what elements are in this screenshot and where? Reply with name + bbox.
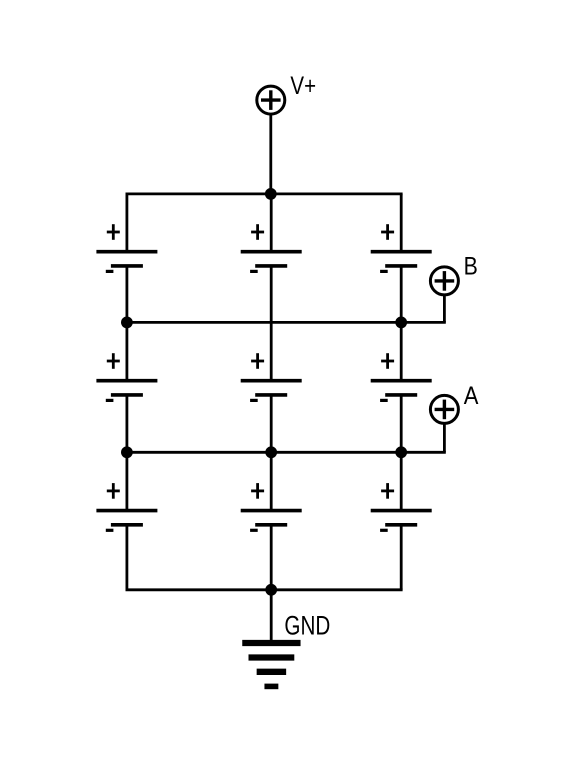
wire V+ to top bus	[269, 115, 272, 194]
junction node B right	[395, 317, 407, 329]
terminal B	[430, 267, 458, 295]
wire battery row1 col3 top lead	[400, 194, 403, 252]
wire battery row3 col1 top lead	[126, 452, 129, 510]
junction node B left	[121, 317, 133, 329]
label V+	[290, 71, 316, 99]
battery cell row3 col2	[241, 511, 302, 525]
wire battery row2 col3 top lead	[400, 322, 403, 380]
wire bus node B	[126, 321, 446, 324]
battery cell row3 col3	[371, 511, 432, 525]
battery cell row2 col1	[96, 381, 157, 395]
battery cell row1 col3	[371, 252, 432, 266]
junction node A middle	[265, 446, 277, 458]
svg-text:B: B	[464, 252, 478, 280]
wire battery row3 col3 top lead	[400, 452, 403, 510]
svg-text:GND: GND	[284, 611, 330, 641]
wire battery row3 col1 bottom lead	[126, 525, 129, 590]
wire terminal A stem	[443, 424, 446, 452]
label A	[464, 382, 479, 410]
battery cell row1 col2	[241, 252, 302, 266]
label + battery row3 col2	[251, 483, 264, 499]
junction V+ bus	[265, 188, 277, 200]
label GND	[284, 611, 330, 641]
label + battery row3 col3	[381, 483, 394, 499]
battery cell row3 col1	[96, 511, 157, 525]
wire battery row3 col2 top lead	[270, 452, 273, 510]
label + battery row2 col2	[251, 353, 264, 369]
wire battery row2 col1 top lead	[126, 322, 129, 380]
junction node A right	[395, 446, 407, 458]
label + battery row1 col3	[381, 224, 394, 240]
battery cell row2 col3	[371, 381, 432, 395]
label - battery row2 col3	[380, 399, 388, 402]
wire battery row1 col2 top lead	[270, 194, 273, 252]
terminal A	[430, 395, 458, 423]
junction node A left	[121, 446, 133, 458]
wire top bus (node V+)	[126, 192, 403, 195]
label - battery row3 col3	[380, 529, 388, 532]
label + battery row2 col1	[107, 353, 120, 369]
junction GND bus	[265, 584, 277, 596]
wire battery row1 col1 bottom lead	[126, 266, 129, 323]
svg-text:A: A	[464, 382, 479, 410]
label + battery row3 col1	[107, 483, 120, 499]
wire battery row2 col2 bottom lead	[270, 395, 273, 452]
wire battery row1 col2 bottom lead	[270, 266, 273, 323]
wire battery row2 col3 bottom lead	[400, 395, 403, 452]
label - battery row1 col1	[106, 270, 114, 273]
label + battery row1 col1	[107, 224, 120, 240]
wire battery row2 col1 bottom lead	[126, 395, 129, 452]
label - battery row3 col1	[106, 529, 114, 532]
label - battery row2 col2	[250, 399, 258, 402]
label - battery row3 col2	[250, 529, 258, 532]
label + battery row2 col3	[381, 353, 394, 369]
label - battery row1 col2	[250, 270, 258, 273]
wire battery row2 col2 top lead	[270, 322, 273, 380]
label - battery row1 col3	[380, 270, 388, 273]
svg-text:V+: V+	[290, 71, 316, 99]
terminal V+	[257, 86, 285, 114]
battery cell row1 col1	[96, 252, 157, 266]
battery cell row2 col2	[241, 381, 302, 395]
label + battery row1 col2	[251, 224, 264, 240]
ground symbol	[242, 643, 300, 686]
label - battery row2 col1	[106, 399, 114, 402]
wire terminal B stem	[443, 296, 446, 323]
wire battery row3 col2 bottom lead	[270, 525, 273, 590]
wire bottom bus (node GND)	[126, 588, 403, 591]
label B	[464, 252, 478, 280]
wire bus node A	[126, 451, 446, 454]
wire GND stem	[270, 590, 273, 643]
wire battery row1 col1 top lead	[126, 194, 129, 252]
wire battery row1 col3 bottom lead	[400, 266, 403, 323]
wire battery row3 col3 bottom lead	[400, 525, 403, 590]
